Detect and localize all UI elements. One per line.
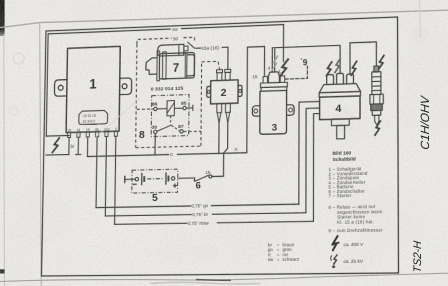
- blade dashed link to 87: [171, 125, 180, 131]
- pin stubs: [68, 131, 118, 137]
- bottom page fold line: [0, 273, 448, 281]
- left mounting ear: [54, 80, 67, 97]
- wire pin31 ground stub: [76, 137, 81, 154]
- cap flange: [319, 92, 360, 98]
- coil body: [260, 90, 287, 134]
- plug terminal: [374, 66, 379, 72]
- wire gn run: [96, 101, 320, 207]
- ignition coil T3 group: [252, 65, 294, 135]
- wire resistor right-bottom to switch: [212, 112, 230, 176]
- left ear: [252, 106, 260, 117]
- terminal 30: [154, 130, 157, 134]
- colour code legend: [268, 242, 300, 262]
- 86 dashed lead: [137, 108, 154, 110]
- bolt at spark plug top: [378, 55, 383, 69]
- bolt below spark plug: [375, 121, 380, 135]
- right terminal circle: [171, 177, 174, 181]
- control unit U1 (Schaltgeraet): [54, 46, 132, 138]
- relay K8 group: [136, 94, 201, 141]
- wire br run: [105, 108, 319, 216]
- solenoid terminal: [184, 46, 188, 51]
- commutator bands: [157, 51, 160, 81]
- starter solenoid: [158, 44, 184, 56]
- bottom terminal right: [225, 103, 230, 112]
- cap bands: [261, 82, 288, 87]
- terminal 87: [180, 130, 183, 134]
- terminal 86: [154, 107, 157, 111]
- wire pin16 to spark box: [68, 137, 70, 154]
- dashed wire to tachometer 9: [285, 66, 307, 79]
- shell rings: [371, 104, 383, 111]
- drive pinion nose: [146, 58, 157, 75]
- wire rt/sw run: [115, 114, 320, 225]
- wire pin 2 to rt/sw run: [115, 136, 116, 224]
- left terminal circle: [135, 177, 138, 181]
- cell 1 plates: [141, 173, 143, 185]
- star mark: [301, 58, 303, 60]
- distributor V4 group: [319, 73, 360, 140]
- plus sign: [173, 183, 177, 187]
- battery dash-dot box: [132, 169, 178, 193]
- spark plug group: [370, 66, 384, 126]
- right ear: [238, 85, 242, 96]
- bolt above distributor left tower: [326, 62, 331, 76]
- distributor body: [320, 96, 360, 120]
- wire 15a(16) starter to resistor: [188, 41, 228, 71]
- ballast resistor R2 group: [207, 69, 243, 113]
- connector outline: [79, 110, 108, 124]
- battery B5 group: [124, 169, 193, 205]
- scanner black bar top-left edge: [0, 0, 5, 36]
- page top edge line: [0, 10, 448, 27]
- spark-gap box at pin 16: [46, 135, 69, 155]
- HV tower: [268, 72, 279, 83]
- faint stains: [13, 53, 24, 64]
- bottom terminal left: [217, 104, 222, 113]
- relay coil: [167, 101, 174, 116]
- legend block: [268, 149, 383, 262]
- legend items: [328, 166, 383, 234]
- center tower: [337, 73, 344, 83]
- battery right lead: [178, 177, 194, 179]
- dashed enclosure (starter/relay option): [136, 36, 220, 147]
- left lead and bar: [124, 176, 126, 183]
- left tower: [327, 75, 334, 85]
- coil leads: [157, 108, 167, 110]
- wire sw top run: [46, 25, 283, 137]
- starter M7 group: [136, 35, 220, 148]
- end cap shape: [187, 55, 195, 76]
- wire distributor right tower to spark plug: [350, 42, 376, 74]
- relay dash-dot box: [151, 95, 189, 137]
- wire pin15 to rt run: [86, 137, 88, 157]
- center electrode: [375, 115, 379, 125]
- insulator ribs: [372, 72, 381, 95]
- wire relay 30 lead to rt run: [154, 134, 156, 155]
- pencil scribble below fold: [150, 282, 260, 284]
- terminal 15 stub: [263, 76, 267, 83]
- switch blade: [157, 125, 171, 131]
- faint crease line: [96, 98, 140, 137]
- top terminal right: [225, 72, 230, 80]
- minus sign: [133, 183, 137, 185]
- ellipsis dash-dot: [147, 178, 163, 180]
- wire rt run: [87, 47, 264, 157]
- svg-text:C1H/OHV: C1H/OHV: [418, 95, 432, 151]
- wire pin 6h to gn run: [96, 137, 97, 208]
- bolt at coil terminal 1: [280, 59, 288, 76]
- distributor cap: [319, 83, 360, 92]
- coil-blade dashed link: [170, 116, 172, 125]
- switch blade: [195, 175, 208, 181]
- top terminal left: [217, 73, 222, 81]
- pin labels row: [67, 127, 117, 133]
- bolt above distributor center: [335, 59, 340, 73]
- black mark bottom-left edge: [0, 269, 5, 273]
- lightning bolt in box: [52, 138, 59, 152]
- terminal 15 circle: [209, 175, 212, 178]
- right tower: [347, 74, 354, 84]
- bolt above distributor right tower: [351, 61, 356, 75]
- neck: [331, 119, 349, 126]
- fixed contact tick: [193, 177, 195, 181]
- wire resistor left-bottom to rt run: [217, 113, 221, 154]
- cell 2 plates: [165, 172, 167, 184]
- ignition switch S6 group: [194, 169, 212, 190]
- terminal 1 stub: [280, 76, 285, 83]
- svg-text:TS2-H: TS2-H: [412, 240, 424, 273]
- 85 ground tick: [186, 107, 193, 109]
- figure frame border: [41, 17, 398, 276]
- 400V lightning symbol: [332, 235, 338, 251]
- starter body: [159, 52, 194, 78]
- shaft: [337, 125, 345, 139]
- right mounting ear: [120, 78, 132, 95]
- end cap double line: [184, 53, 186, 78]
- wire HV coil to distributor: [272, 45, 340, 75]
- 87 dashed lead to resistor: [183, 130, 201, 133]
- left ear: [207, 86, 211, 97]
- terminal 85: [183, 106, 186, 110]
- right ear: [287, 105, 295, 116]
- hex: [370, 94, 383, 104]
- wire pin 31d to br run: [105, 137, 106, 216]
- 25kV spark symbol: [331, 254, 338, 267]
- bolt at coil terminal 4 (gray): [272, 56, 277, 70]
- page left edge line: [40, 22, 42, 286]
